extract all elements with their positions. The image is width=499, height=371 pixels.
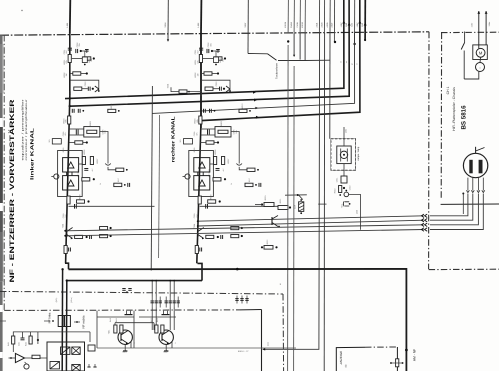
svg-text:68k: 68k [196, 119, 199, 122]
capacitor C1 right input [199, 47, 203, 49]
transistor module T3 left boxed [63, 176, 79, 190]
tacho generator circle [476, 63, 485, 72]
part number box left [52, 139, 61, 144]
svg-text:linker KANAL: linker KANAL [30, 128, 35, 180]
lamp inner box [337, 146, 351, 164]
capacitor C2 left [75, 49, 77, 53]
resistor cluster beside transistors left [82, 157, 85, 165]
svg-text:1k: 1k [230, 183, 233, 185]
wire rail x159 vertical [159, 115, 160, 258]
wire feedback to driver right [231, 132, 239, 164]
cartridge pins below [467, 178, 469, 191]
svg-text:R320: R320 [264, 196, 267, 201]
arrow on output wire 4 [256, 116, 259, 119]
resistor R401 [12, 336, 15, 344]
svg-text:+30V: +30V [356, 22, 359, 28]
svg-text:R317: R317 [117, 178, 120, 182]
svg-text:10n: 10n [104, 130, 107, 133]
wire turntable inner base [441, 203, 499, 205]
svg-text:47u: 47u [64, 132, 67, 135]
bus wire L3128 x288 [287, 0, 289, 33]
bus wire x365 thick [364, 0, 366, 40]
svg-text:R411: R411 [115, 318, 118, 322]
wire x294 drop with arrow [293, 33, 295, 55]
svg-text:-ANZEIGE: -ANZEIGE [339, 351, 343, 365]
resistor R313 right [239, 109, 247, 112]
wire lamp box bottom out [343, 164, 345, 176]
bus wire A307 x334 [333, 0, 335, 42]
wire left channel input drop x70 [69, 0, 72, 34]
wire right channel input drop x201 [200, 0, 202, 33]
bias network right [231, 227, 239, 230]
wire right channel output run to bus x360 [201, 0, 360, 121]
resistor R320 [264, 203, 274, 207]
svg-text:1k: 1k [99, 183, 102, 185]
bus wire CA38 x300 [299, 0, 301, 33]
junction dot cartridge 2 [64, 230, 66, 232]
transistor T4 right [197, 229, 199, 237]
input pin circle left [54, 174, 59, 179]
junction dot cartridge 3 [197, 225, 199, 227]
capacitor C5 right [207, 130, 209, 135]
junction dot W2 takeoff [69, 105, 71, 107]
wire top rail output stage [13, 332, 47, 336]
meter box AM anzeige [336, 347, 365, 371]
svg-text:R401: R401 [7, 342, 10, 346]
capacitor C3 right [217, 49, 219, 53]
wire x294 vertical lower half [293, 66, 296, 371]
border output section chain line y310 [4, 309, 240, 312]
svg-text:301: 301 [48, 140, 51, 143]
socket box X4 cross [72, 365, 80, 371]
svg-text:2u2: 2u2 [64, 214, 67, 217]
arrow up on riser x360 [358, 21, 361, 24]
arrow on output wire 2 [254, 99, 257, 102]
arrow on output wire 1 [253, 91, 256, 94]
bias parts right [245, 183, 253, 186]
wires between transistor modules left [66, 172, 68, 176]
svg-text:NF links: NF links [48, 312, 52, 323]
svg-text:ws: ws [346, 61, 348, 63]
transistor module T3 right boxed [194, 176, 210, 190]
resistor R3 left [70, 73, 73, 75]
svg-text:NF - ENTZERRER - VORVERSTÄRKER: NF - ENTZERRER - VORVERSTÄRKER [8, 99, 16, 283]
border power section chain vertical x283 [282, 294, 285, 371]
svg-text:(6): (6) [345, 364, 348, 367]
terminal chevrons cartridge wires [421, 214, 427, 217]
wires output stage internals [47, 331, 90, 333]
terminal dot x365 [364, 39, 366, 41]
svg-text:Lxxx: Lxxx [267, 342, 270, 346]
trim network right [212, 51, 216, 57]
thermistor R331 oval [344, 192, 349, 197]
feedback box left [69, 128, 84, 130]
wire driver to bias right [239, 167, 247, 170]
arrow up on riser x349 [348, 23, 351, 26]
wire lamp vertical x344 from label [343, 127, 345, 139]
svg-text:R308: R308 [193, 148, 196, 153]
socket box X1 diagonal [61, 347, 70, 354]
svg-text:A303: A303 [320, 22, 323, 28]
transistor module T2 left boxed [63, 158, 79, 172]
wire jog y60 to x330 [305, 59, 330, 61]
bottom thin rail y348 [97, 347, 296, 349]
junction dot cartridge 4 [197, 220, 199, 222]
resistor R313 left [108, 109, 116, 112]
svg-text:BS 5816: BS 5816 [461, 105, 468, 130]
wire left channel main vertical [69, 34, 71, 98]
wire into lamp box top [343, 139, 345, 146]
junction dot am-nf [405, 349, 408, 352]
terminal dot x168 [167, 39, 169, 41]
resistor R10 left [75, 235, 83, 238]
capacitor C9 right [199, 248, 201, 252]
svg-text:R317: R317 [248, 178, 251, 182]
resistor R402 [29, 336, 32, 344]
capacitor C8 right [220, 235, 222, 239]
indicator circle [24, 364, 29, 369]
resistor R9 right [208, 200, 216, 203]
resistor R6 left [69, 142, 75, 144]
wire drops to power transistors [151, 308, 153, 331]
resistor R405 [32, 355, 40, 358]
svg-text:A305: A305 [326, 22, 329, 28]
wire driver to bias left [108, 167, 116, 170]
svg-text:L330: L330 [356, 210, 359, 214]
junction dots below top rule [287, 40, 289, 42]
transistor T1 right emitter follower [226, 86, 230, 89]
switch wire y195 [285, 194, 307, 196]
svg-text:S304: S304 [167, 84, 170, 88]
svg-text:C330: C330 [349, 186, 352, 191]
svg-text:correcteur / préamplificateur: correcteur / préamplificateur [24, 99, 28, 160]
junction dot bus [236, 268, 239, 271]
svg-text:C331: C331 [336, 178, 339, 183]
wire x324 vertical full height [323, 33, 325, 371]
input pin circle right [185, 174, 190, 179]
wire sub-loop right [201, 80, 230, 91]
ground symbols y315 [126, 311, 128, 315]
diode box D301 hatched [299, 202, 304, 212]
wire NF rechts vertical [65, 281, 67, 371]
connector block NF [58, 316, 64, 327]
junction dot cartridge 1 [64, 235, 66, 237]
capacitors C420 C421 right of centre [236, 296, 238, 304]
resistor on meter box edge [396, 359, 399, 367]
border main module top chain line [0, 32, 429, 35]
speck top left [21, 10, 22, 11]
svg-text:R308: R308 [62, 148, 65, 153]
capacitor C2 right [206, 49, 208, 53]
transistor T4 left [66, 229, 68, 237]
svg-text:301: 301 [179, 140, 182, 143]
capacitor C6 left [84, 168, 88, 170]
junction dots NF pair [61, 268, 63, 270]
svg-text:rechter KANAL: rechter KANAL [171, 116, 176, 162]
svg-text:A307: A307 [330, 22, 333, 28]
scan edge bar left [0, 36, 3, 371]
base coupling wire power stage [115, 322, 154, 324]
wire rail x152 vertical [151, 86, 152, 271]
wire transistor T401 frame [96, 311, 98, 348]
capacitor C8 left [89, 235, 91, 239]
svg-text:2u2: 2u2 [195, 214, 198, 217]
wire cartridge 2 long run [65, 225, 423, 231]
svg-text:L302: L302 [345, 129, 348, 133]
wire branch x300 down [299, 33, 301, 60]
wire tonearm elbow from x248 [248, 53, 268, 55]
amplifier triangle A401 [15, 353, 24, 362]
svg-text:Lampe / lamp: Lampe / lamp [357, 146, 360, 161]
border main module right chain line [428, 32, 430, 269]
motor M301 [476, 48, 485, 57]
svg-text:(NFre): (NFre) [70, 297, 73, 303]
terminal arrows NF [44, 320, 50, 322]
amplifier module enclosure left [58, 151, 83, 197]
wire NF links vertical [61, 269, 63, 371]
bus wire x354 thin upper [354, 0, 356, 44]
svg-text:HiFi.-Plattenspieler - Chassis: HiFi.-Plattenspieler - Chassis [452, 87, 456, 131]
second bus thick lower [67, 280, 202, 282]
capacitor C7 left [74, 204, 76, 209]
capacitor C5 left [75, 130, 77, 135]
motor box [473, 45, 488, 60]
transistor module T2 right boxed [194, 158, 210, 172]
output box top right solid [240, 309, 262, 311]
svg-text:◌: ◌ [479, 66, 481, 70]
wire right channel drop jog [198, 263, 203, 280]
transistor T310 [271, 217, 273, 225]
wire link across pair y204 [318, 203, 326, 205]
ground bus thick [69, 269, 407, 371]
capacitor C4 right [219, 87, 221, 91]
arrow meter send [263, 348, 266, 351]
trim network left [81, 51, 85, 57]
output box right edge solid [261, 310, 263, 371]
border power section chain line y292 [0, 291, 283, 294]
resistor R1 left series [68, 55, 71, 63]
tick left edge [0, 320, 6, 322]
svg-text:CH 1: CH 1 [446, 87, 450, 95]
cartridge wires elbows [430, 194, 468, 216]
cartridge body circle [463, 153, 487, 177]
svg-text:68k: 68k [65, 119, 68, 122]
small parts on chain line y292 [122, 288, 125, 290]
svg-text:220V: 220V [471, 22, 474, 27]
svg-text:T311: T311 [341, 204, 344, 208]
resistor R10 right [206, 235, 214, 238]
bias parts left [114, 183, 122, 186]
resistor R330 vertical [339, 186, 342, 193]
svg-text:R402: R402 [25, 342, 28, 346]
resistor R1 right series [199, 55, 202, 63]
wire triangle to socket box [25, 357, 47, 359]
svg-text:S304: S304 [164, 22, 167, 28]
cartridge pin left [469, 160, 472, 174]
bus wire S3481 x294 [293, 0, 295, 33]
svg-text:47k: 47k [196, 60, 199, 63]
svg-text:+25V: +25V [340, 22, 343, 28]
resistor R4 left [74, 87, 82, 90]
border turntable chassis box left chain line [440, 33, 442, 199]
svg-text:R330: R330 [334, 189, 337, 194]
junction dot W1 takeoff [69, 97, 71, 99]
svg-text:R309: R309 [210, 195, 213, 200]
resistor R3 right [201, 73, 204, 75]
resistor R9 left [77, 200, 85, 203]
svg-text:gn: gn [351, 63, 353, 65]
wire left channel output run to bus x344 [65, 0, 344, 99]
resistor R8 left on wire [67, 196, 70, 204]
svg-text:R321: R321 [279, 199, 282, 204]
socket box X2 cross [72, 347, 80, 354]
svg-text:33n: 33n [209, 43, 212, 46]
svg-text:R309: R309 [79, 195, 82, 200]
svg-text:R412: R412 [150, 318, 153, 322]
border main module left chain line [3, 35, 5, 311]
svg-text:47k: 47k [65, 60, 68, 63]
output stage box [47, 342, 85, 371]
wire strobe elbow to runs [349, 194, 361, 229]
svg-text:S307: S307 [244, 22, 247, 28]
svg-text:Tonabnehmer: Tonabnehmer [276, 63, 279, 79]
resistor R11 left on wire [64, 246, 67, 254]
ground marks under transistors [124, 348, 126, 351]
svg-text:1M: 1M [65, 73, 68, 76]
wire cartridge 3 long run [198, 220, 424, 226]
svg-text:T401: T401 [108, 330, 111, 334]
wire drops from bus to caps row [151, 281, 153, 297]
cartridge stylus stem [475, 147, 477, 154]
resistor R321 [278, 206, 288, 210]
wire cartridge 1 long run [65, 230, 423, 236]
lamp La301 [340, 151, 347, 158]
capacitor C6 right [216, 168, 220, 170]
emitter resistors T402 [155, 325, 158, 333]
wire thin run to bus x354 [152, 33, 354, 114]
arrow up on bus x365 [364, 23, 367, 26]
wire x319 vertical to meter send [263, 33, 320, 349]
capacitor C401 [21, 337, 25, 339]
svg-text:NF rechts: NF rechts [82, 315, 86, 329]
part number box right [184, 139, 193, 144]
wire right channel vertical lower [197, 121, 201, 263]
wire tonearm to bus [278, 33, 305, 61]
feedback box right [201, 128, 216, 130]
svg-text:S3481: S3481 [290, 21, 293, 28]
capacitor C3 left [86, 49, 88, 53]
svg-text:AM - NF: AM - NF [413, 349, 417, 361]
wire right channel main vertical [200, 34, 202, 128]
transistor T311 clamp [343, 201, 349, 206]
capacitors C311 C312 below corner right [203, 109, 205, 113]
svg-text:50Hz: 50Hz [488, 22, 491, 26]
wire switch to tacho [464, 72, 479, 79]
svg-text:1M: 1M [196, 73, 199, 76]
wire resistor row to triangle [12, 344, 14, 352]
wire transistor T402 frame [139, 316, 176, 318]
svg-text:T304: T304 [62, 224, 65, 228]
svg-text:C401: C401 [18, 342, 21, 346]
resistor R5 right on wire [199, 116, 202, 124]
transistor T401 power [118, 330, 132, 344]
wire cartridge 4 long run [198, 216, 424, 221]
capacitor C7 right [205, 204, 207, 209]
wire motor to tacho [479, 57, 482, 62]
wire T401 legs [124, 344, 126, 348]
border chain line exiting right at y269 [429, 268, 499, 270]
ground ticks under socket box [88, 364, 90, 367]
border turntable chassis box top chain line [441, 31, 499, 33]
resistor cluster beside transistors right [214, 157, 217, 165]
svg-text:B301-1 · 27: B301-1 · 27 [238, 350, 249, 353]
wire left channel supply run to bus x349 [70, 0, 349, 106]
resistor R4 right [205, 87, 213, 90]
bus wire L3132 x305 [304, 0, 306, 33]
speed switch S302 [464, 32, 466, 43]
arrow on output wire 3 [255, 107, 258, 110]
wire tonearm feed x248 [247, 0, 249, 54]
resistor R316 right [247, 168, 255, 171]
svg-text:R322: R322 [266, 240, 269, 245]
capacitor C331 below lamp box [341, 176, 347, 183]
wires between transistor modules right [197, 172, 199, 176]
bus wire A303 x324 [323, 0, 325, 33]
emitter resistors T401 [114, 325, 117, 333]
terminal dot cartridge aux [462, 193, 464, 195]
resistor R5 left on wire [68, 116, 71, 124]
svg-text:R413: R413 [156, 318, 159, 322]
transistor T402 power [159, 330, 173, 344]
wire left channel drop jog [65, 263, 69, 269]
svg-text:33n: 33n [78, 43, 81, 46]
resistor R11 right on wire [195, 246, 198, 254]
capacitor C4 left [87, 87, 89, 91]
svg-text:T304: T304 [193, 224, 196, 228]
resistor R316 left [116, 168, 124, 171]
svg-text:CA38: CA38 [296, 22, 299, 28]
resistor R2 right shunt network [203, 58, 214, 60]
svg-text:M: M [479, 51, 483, 56]
svg-text:A301: A301 [315, 22, 318, 28]
wire sub-loop left [70, 80, 99, 91]
stage 2 coupling wire right [200, 205, 286, 207]
resistor R6 right [200, 142, 206, 144]
svg-text:10n: 10n [235, 130, 238, 133]
resistor R322 [264, 246, 273, 250]
bias network left [100, 227, 108, 230]
wire feedback to driver left [100, 132, 108, 164]
capacitor C402 [37, 339, 39, 341]
small component bottom [88, 345, 95, 351]
svg-text:R410: R410 [109, 318, 112, 322]
wire x288 vertical lower half [287, 45, 290, 371]
transistor T1 left emitter follower [95, 86, 99, 89]
capacitor row between chain lines [151, 297, 153, 308]
wire left channel vertical lower [66, 98, 70, 264]
wire vertical x168 with terminal [167, 0, 169, 40]
svg-text:L3128: L3128 [284, 21, 287, 28]
svg-text:4k7: 4k7 [222, 169, 225, 172]
switch S301 tonearm lift [268, 54, 277, 60]
svg-text:47u: 47u [195, 132, 198, 135]
wire lamp feed from bus x330 down [329, 33, 331, 139]
wire into triangle [9, 357, 16, 359]
stage 2 coupling wire left [69, 205, 155, 207]
svg-text:(NFli): (NFli) [55, 297, 58, 302]
svg-text:L3132: L3132 [301, 21, 304, 28]
capacitor C1 left input [68, 47, 72, 49]
